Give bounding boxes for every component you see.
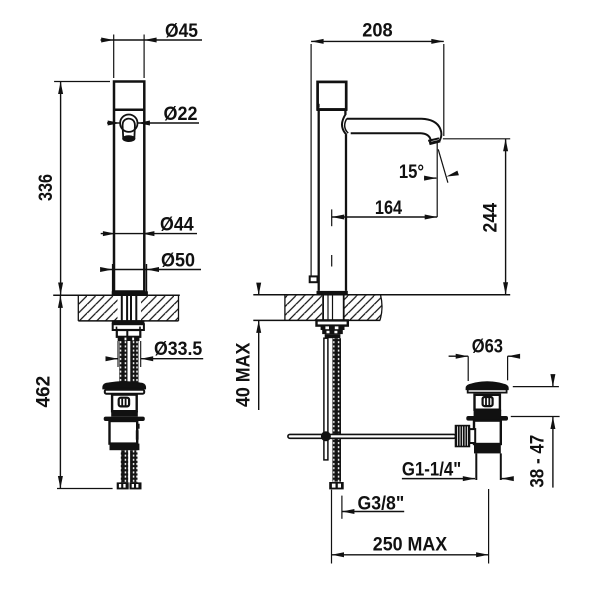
svg-text:Ø63: Ø63 (472, 336, 503, 357)
svg-text:Ø44: Ø44 (160, 215, 194, 236)
svg-text:G1-1/4": G1-1/4" (402, 459, 461, 480)
svg-text:40 MAX: 40 MAX (233, 342, 254, 407)
svg-text:Ø45: Ø45 (165, 21, 198, 42)
svg-text:250 MAX: 250 MAX (373, 535, 448, 556)
svg-text:462: 462 (34, 376, 55, 408)
svg-text:15°: 15° (399, 162, 424, 183)
svg-text:Ø22: Ø22 (164, 104, 198, 125)
svg-text:Ø33.5: Ø33.5 (154, 339, 203, 360)
svg-text:Ø50: Ø50 (161, 251, 195, 272)
svg-text:336: 336 (36, 174, 57, 201)
svg-text:244: 244 (480, 203, 501, 233)
svg-text:208: 208 (362, 21, 392, 42)
svg-text:38 - 47: 38 - 47 (528, 435, 549, 488)
svg-text:164: 164 (375, 198, 403, 219)
